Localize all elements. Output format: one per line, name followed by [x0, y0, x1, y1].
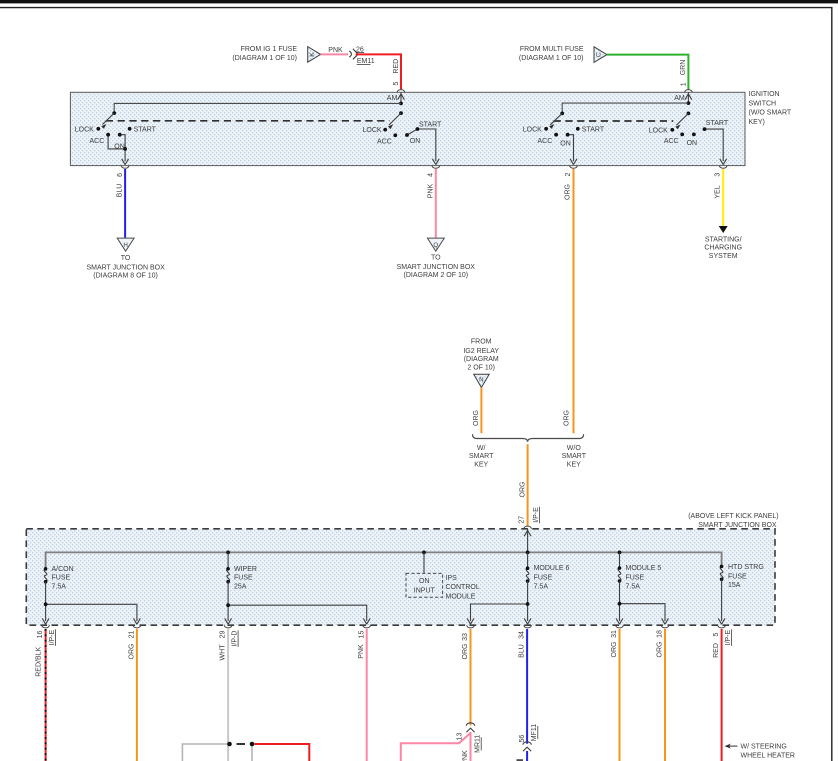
wire ORG to SJB pin 27	[527, 444, 529, 526]
entry pin 27	[524, 526, 532, 529]
svg-text:TO: TO	[431, 254, 441, 261]
svg-text:(DIAGRAM: (DIAGRAM	[464, 356, 499, 363]
wire AM to switch section 3	[562, 103, 688, 113]
smart junction box	[26, 529, 775, 625]
svg-text:ORG: ORG	[611, 642, 618, 658]
svg-text:2 OF 10): 2 OF 10)	[467, 365, 495, 372]
fuse HTD STRG 15A	[720, 566, 723, 579]
svg-text:START: START	[134, 126, 157, 133]
wire ORG pin 31	[619, 629, 621, 761]
svg-text:SMART JUNCTION BOX: SMART JUNCTION BOX	[86, 264, 165, 271]
svg-text:BLU: BLU	[519, 644, 526, 658]
svg-text:SMART: SMART	[469, 453, 494, 460]
svg-text:7.5A: 7.5A	[626, 583, 641, 590]
connector triangle C	[594, 47, 607, 63]
wire BLU pin 6	[124, 169, 126, 238]
SJB exits	[42, 618, 49, 624]
wire RED pin 5	[721, 629, 723, 761]
svg-text:7.5A: 7.5A	[52, 583, 67, 590]
svg-text:FUSE: FUSE	[626, 575, 645, 582]
svg-text:MF11: MF11	[531, 724, 538, 741]
wire ORG pin 21	[136, 629, 138, 761]
svg-text:ORG: ORG	[656, 642, 663, 658]
wire ORG from N	[480, 388, 482, 434]
svg-text:ON: ON	[560, 140, 571, 147]
svg-text:LOCK: LOCK	[649, 128, 668, 135]
svg-text:HTD STRG: HTD STRG	[728, 564, 764, 571]
svg-text:16: 16	[37, 631, 44, 639]
entry AM pin 5	[397, 90, 405, 93]
switch section 2 wiper	[389, 113, 436, 161]
label FROM MULTI FUSE	[519, 46, 584, 62]
note W/ STEERING WHEEL HEATER	[726, 745, 738, 747]
svg-text:LOCK: LOCK	[363, 127, 382, 134]
svg-text:7.5A: 7.5A	[534, 583, 549, 590]
arrow to starting/charging system	[719, 226, 728, 233]
IPS control module ON INPUT	[423, 552, 425, 573]
svg-text:56: 56	[519, 735, 526, 743]
connector triangle Q	[427, 238, 444, 251]
svg-text:START: START	[419, 122, 442, 129]
svg-text:PNK: PNK	[328, 47, 343, 54]
svg-text:RED: RED	[393, 59, 400, 74]
svg-text:YEL: YEL	[714, 185, 721, 198]
svg-text:ON: ON	[687, 140, 698, 147]
svg-text:SMART JUNCTION BOX: SMART JUNCTION BOX	[698, 522, 777, 529]
svg-text:IG2 RELAY: IG2 RELAY	[463, 348, 499, 355]
svg-text:I/P-D: I/P-D	[232, 631, 239, 647]
svg-text:ACC: ACC	[538, 138, 553, 145]
svg-text:LOCK: LOCK	[75, 126, 94, 133]
svg-text:I/P-E: I/P-E	[49, 629, 56, 645]
svg-text:33: 33	[462, 633, 469, 641]
svg-text:29: 29	[220, 631, 227, 639]
svg-text:RED/BLK: RED/BLK	[36, 646, 43, 676]
label FROM IG2 RELAY	[463, 338, 499, 371]
brace merge	[473, 434, 584, 442]
wire ORG pin 33	[470, 629, 472, 725]
exit pin 4	[432, 159, 439, 165]
svg-text:ACC: ACC	[377, 138, 392, 145]
svg-text:25A: 25A	[234, 583, 247, 590]
wire ORG pin 18	[664, 629, 666, 761]
svg-text:N: N	[479, 377, 483, 384]
mechanical link	[227, 742, 232, 747]
svg-text:Q: Q	[433, 242, 438, 249]
svg-text:BLU: BLU	[117, 184, 124, 198]
svg-text:WHEEL HEATER: WHEEL HEATER	[741, 753, 795, 760]
svg-text:H: H	[123, 242, 127, 249]
in-line connector 13 MR11	[466, 723, 474, 726]
svg-text:(W/O SMART: (W/O SMART	[749, 110, 792, 117]
svg-text:IGNITION: IGNITION	[749, 91, 780, 98]
svg-text:21: 21	[129, 631, 136, 639]
exit pin 6	[122, 159, 129, 165]
in-line connector 26 EM11	[349, 51, 351, 57]
wire RED from wiper switch	[254, 744, 309, 761]
svg-text:I/P-E: I/P-E	[533, 507, 540, 523]
connector triangle N	[474, 374, 490, 387]
svg-text:FROM MULTI FUSE: FROM MULTI FUSE	[520, 46, 584, 53]
svg-text:K: K	[309, 52, 316, 57]
svg-text:FROM IG 1 FUSE: FROM IG 1 FUSE	[241, 46, 298, 53]
top rule	[0, 0, 838, 3]
svg-text:6: 6	[117, 173, 124, 177]
svg-text:CONTROL: CONTROL	[446, 584, 480, 591]
fuse WIPER 25A	[227, 552, 229, 568]
svg-text:FUSE: FUSE	[52, 575, 71, 582]
svg-text:15A: 15A	[728, 582, 741, 589]
svg-text:W/O: W/O	[567, 445, 582, 452]
wire RED/BLK pin 16	[45, 629, 47, 761]
svg-text:SMART: SMART	[562, 453, 587, 460]
svg-text:5: 5	[713, 632, 720, 636]
svg-text:1: 1	[680, 82, 687, 86]
exit pin 3	[720, 159, 727, 165]
svg-text:IPS: IPS	[446, 575, 458, 582]
svg-text:KEY: KEY	[567, 462, 581, 469]
svg-text:AM: AM	[674, 95, 685, 102]
ignition switch box	[70, 92, 745, 165]
svg-text:15: 15	[358, 631, 365, 639]
svg-text:5: 5	[393, 82, 400, 86]
svg-text:GRN: GRN	[680, 60, 687, 76]
wiper switch component (off page)	[182, 744, 227, 761]
svg-text:3: 3	[715, 173, 722, 177]
svg-text:W/: W/	[477, 445, 486, 452]
svg-text:MR11: MR11	[475, 735, 482, 753]
svg-text:ORG: ORG	[128, 644, 135, 660]
wire PNK below MR11	[470, 732, 472, 761]
svg-text:SMART JUNCTION BOX: SMART JUNCTION BOX	[397, 264, 476, 271]
svg-text:PNK: PNK	[358, 644, 365, 659]
svg-text:START: START	[706, 120, 729, 127]
svg-text:W/ STEERING: W/ STEERING	[741, 744, 787, 751]
svg-text:ORG: ORG	[473, 410, 480, 426]
in-line connector 56 MF11	[523, 742, 531, 745]
exit pin 2	[570, 159, 577, 165]
switch section 3 wiper	[550, 113, 573, 161]
svg-text:LOCK: LOCK	[523, 126, 542, 133]
svg-text:MODULE 5: MODULE 5	[626, 565, 662, 572]
svg-text:2: 2	[565, 172, 572, 176]
svg-text:ORG: ORG	[565, 184, 572, 200]
svg-text:STARTING/: STARTING/	[705, 236, 742, 243]
wire PNK pin 15	[366, 629, 368, 761]
svg-text:KEY): KEY)	[749, 119, 765, 126]
svg-text:RED: RED	[713, 643, 720, 658]
svg-text:MODULE 6: MODULE 6	[534, 565, 570, 572]
svg-text:34: 34	[519, 631, 526, 639]
svg-text:ON: ON	[410, 138, 421, 145]
fuse MODULE 5 7.5A	[619, 552, 621, 568]
connector triangle K	[308, 47, 321, 63]
svg-text:KEY: KEY	[474, 462, 488, 469]
svg-text:I/P-E: I/P-E	[725, 629, 732, 645]
svg-text:31: 31	[611, 630, 618, 638]
svg-text:WHT: WHT	[220, 644, 227, 661]
svg-text:EM11: EM11	[357, 58, 375, 65]
wire WHT pin 29	[227, 629, 229, 761]
wire RED to AM pin 5	[356, 54, 401, 89]
wire ORG pin 2 long	[573, 169, 575, 433]
svg-text:4: 4	[428, 173, 435, 177]
svg-text:ORG: ORG	[462, 644, 469, 660]
svg-text:START: START	[582, 126, 605, 133]
svg-text:(DIAGRAM 1 OF 10): (DIAGRAM 1 OF 10)	[232, 55, 297, 62]
svg-text:FUSE: FUSE	[534, 575, 553, 582]
SJB labels	[688, 513, 778, 529]
wire PNK pin 4	[435, 169, 437, 238]
svg-text:ACC: ACC	[90, 138, 105, 145]
switch section 4 wiper	[676, 113, 723, 161]
svg-text:INPUT: INPUT	[414, 588, 436, 595]
svg-text:TO: TO	[121, 255, 131, 262]
svg-text:ORG: ORG	[519, 482, 526, 498]
ganged link G3-G4	[554, 120, 674, 122]
entry AM pin 1	[685, 90, 693, 93]
svg-text:18: 18	[657, 630, 664, 638]
svg-text:ON: ON	[419, 578, 430, 585]
svg-text:SYSTEM: SYSTEM	[709, 253, 738, 260]
svg-text:SWITCH: SWITCH	[749, 100, 777, 107]
svg-text:(DIAGRAM 2 OF 10): (DIAGRAM 2 OF 10)	[404, 272, 469, 279]
svg-text:CHARGING: CHARGING	[704, 245, 742, 252]
svg-text:PNK: PNK	[427, 183, 434, 198]
wire PNK from K	[321, 53, 348, 55]
clipped label fragment at page bottom	[517, 759, 524, 761]
svg-text:FROM: FROM	[471, 338, 492, 345]
svg-text:FUSE: FUSE	[234, 575, 253, 582]
wire AM to switch section 1	[114, 103, 401, 113]
switch section 1 wiper	[103, 113, 126, 161]
svg-text:AM: AM	[387, 95, 398, 102]
svg-text:ORG: ORG	[563, 410, 570, 426]
svg-text:(DIAGRAM 8 OF 10): (DIAGRAM 8 OF 10)	[93, 272, 158, 279]
fuse A/CON 7.5A	[44, 569, 47, 582]
wire GRN to AM pin 1	[607, 55, 689, 90]
svg-text:FUSE: FUSE	[728, 573, 747, 580]
wire BLU pin 34	[526, 629, 528, 744]
svg-text:(ABOVE LEFT KICK PANEL): (ABOVE LEFT KICK PANEL)	[688, 513, 778, 520]
svg-text:A/CON: A/CON	[52, 566, 74, 573]
connector triangle H	[117, 238, 134, 251]
svg-text:PNK: PNK	[462, 750, 469, 761]
svg-text:WIPER: WIPER	[234, 566, 257, 573]
internal bus	[46, 552, 722, 568]
wire YEL pin 3	[722, 169, 724, 227]
svg-text:MODULE: MODULE	[446, 594, 476, 601]
svg-text:(DIAGRAM 1 OF 10): (DIAGRAM 1 OF 10)	[519, 55, 584, 62]
fuse MODULE 6 7.5A	[527, 552, 529, 568]
svg-text:27: 27	[518, 516, 525, 524]
svg-text:ACC: ACC	[664, 138, 679, 145]
ganged link G1-G2	[106, 120, 390, 122]
svg-text:ON: ON	[114, 143, 125, 150]
svg-text:C: C	[596, 52, 603, 57]
